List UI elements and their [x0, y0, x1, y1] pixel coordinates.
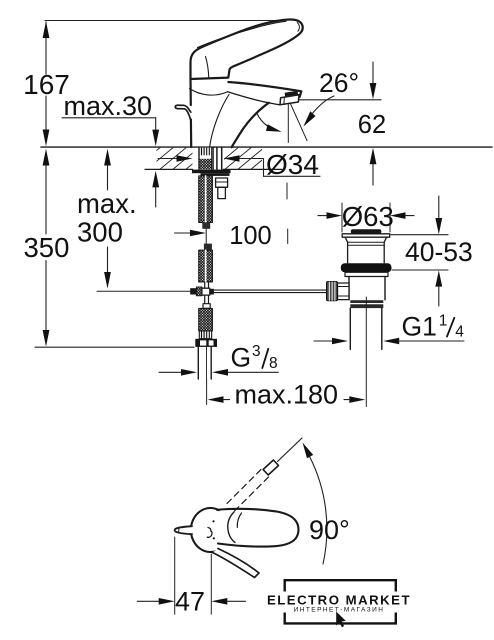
dimension G3/8 arrows	[159, 369, 278, 376]
hose nut 2	[204, 244, 212, 251]
deck hatching right of shank	[212, 148, 277, 170]
svg-text:3: 3	[252, 343, 261, 360]
horizontal pop-up rod to drain	[214, 289, 327, 291]
top view: cap marks	[212, 520, 214, 522]
dimension max.30 leader and arrows	[62, 118, 159, 207]
svg-text:47: 47	[175, 587, 205, 617]
svg-text:1: 1	[439, 313, 448, 330]
dimension 350 vertical line with arrows	[43, 149, 50, 347]
neck collar curve	[190, 89, 228, 96]
350 bottom reference line	[35, 346, 194, 348]
lever inner top contour	[198, 21, 287, 47]
label Ø34 box	[263, 159, 265, 177]
top view: cap second contour	[237, 513, 241, 528]
body interior S curve	[210, 95, 229, 147]
svg-text:G: G	[231, 342, 252, 372]
faucet head and lever outline	[191, 20, 303, 79]
spout arm top edge	[228, 82, 301, 97]
svg-text:100: 100	[229, 222, 272, 250]
top view: raised lever dashed lines	[227, 468, 263, 504]
body right edge	[232, 103, 269, 147]
rod coupling knurled block	[196, 287, 202, 296]
drain body	[349, 277, 385, 300]
body left edge	[189, 79, 192, 105]
logo cursor icon	[336, 612, 346, 628]
arm underside	[228, 92, 280, 105]
svg-text:G1: G1	[402, 312, 437, 342]
drain side port cylinder	[338, 283, 350, 300]
top view: capsule near-edge arc	[228, 512, 235, 543]
svg-text:300: 300	[77, 216, 123, 247]
svg-text:Ø34: Ø34	[266, 149, 319, 180]
dimension Ø34 arrows at deck	[158, 155, 263, 162]
deck hatching left of shank	[134, 148, 212, 170]
top reference line (lever height)	[45, 20, 297, 22]
collar	[203, 304, 210, 309]
top view: spout nub	[175, 526, 192, 534]
drain center line	[365, 297, 367, 407]
dimension 100 arrow	[175, 230, 207, 237]
top view: lever blade	[213, 549, 260, 578]
top view: raised lever tip box	[263, 460, 278, 475]
dimension max.300 vertical line with arrows	[104, 149, 111, 289]
drain flange plate	[342, 234, 390, 237]
top view: raised lever axis line	[278, 438, 303, 462]
dimension 47 extension lines	[174, 537, 176, 614]
svg-text:350: 350	[24, 232, 70, 263]
svg-text:ИНТЕРНЕТ-МАГАЗИН: ИНТЕРНЕТ-МАГАЗИН	[294, 607, 385, 614]
svg-text:90°: 90°	[309, 515, 350, 545]
rod cross white block	[202, 288, 210, 295]
drain plug cap	[351, 229, 382, 234]
G3/8 hex nut	[195, 339, 217, 347]
svg-text:Ø63: Ø63	[342, 201, 394, 232]
dimension G1 1/4 arrows	[314, 338, 464, 345]
top view: lever capsule	[217, 509, 298, 547]
dimension 62: top reference line from spout	[299, 99, 381, 101]
aerator dark band	[285, 91, 299, 99]
drain neck	[345, 237, 386, 263]
dimension 167 vertical line with arrows	[43, 21, 50, 146]
drain knurled knob	[327, 282, 338, 301]
svg-text:62: 62	[358, 111, 386, 139]
svg-text:max.: max.	[77, 188, 137, 219]
svg-text:4: 4	[455, 324, 464, 341]
dimension 47 arrows	[137, 598, 245, 605]
head face arc	[206, 57, 209, 79]
drain bottom ring	[350, 300, 383, 308]
drain tailpipe	[349, 308, 351, 349]
svg-text:max.30: max.30	[64, 91, 153, 121]
mounting flange under deck	[192, 170, 231, 174]
lower braided hose tail	[199, 308, 213, 331]
90 degree arc with arrowhead	[310, 456, 327, 564]
pop-up rod tube through deck	[216, 148, 218, 170]
stem below clamp	[204, 296, 206, 304]
svg-text:40-53: 40-53	[405, 237, 473, 267]
stem between hose and clamp	[204, 282, 206, 288]
26deg arc with arrowheads	[257, 113, 269, 127]
connection tube below nut	[197, 347, 199, 379]
dimension 62 arrows	[370, 62, 377, 185]
deck bottom line	[145, 168, 193, 170]
pop-up knob	[175, 105, 191, 119]
drain rubber gasket	[341, 263, 392, 272]
pop-up rod left reference line	[97, 290, 190, 292]
dimension 40-53 reference lines	[391, 234, 448, 236]
dimension 40-53 arrows	[435, 196, 442, 306]
svg-text:8: 8	[269, 355, 278, 372]
aerator outline box	[280, 95, 299, 105]
rod right dark block	[210, 289, 214, 295]
hose end nut	[202, 222, 210, 228]
dimension Ø63 arrows	[318, 212, 414, 219]
drain: dimension Ø63 extension lines	[341, 203, 343, 232]
supply hose lower braided section	[199, 250, 213, 282]
svg-text:26°: 26°	[319, 68, 359, 98]
top view: body circle	[191, 508, 219, 552]
hose break center line	[205, 229, 207, 244]
threaded shank through deck	[199, 148, 211, 156]
deck / counter top line	[41, 146, 492, 148]
26deg vertical reference line from aerator	[287, 103, 289, 143]
supply hose upper braided section	[199, 176, 213, 223]
26deg slanted line	[290, 102, 308, 141]
drain lock ring	[345, 272, 388, 276]
pop-up rod fitting	[216, 178, 228, 187]
lever loop inner contour	[297, 23, 299, 32]
rod coupling dark block	[190, 288, 196, 294]
svg-text:max.180: max.180	[235, 380, 339, 410]
svg-text:ELECTRO MARKET: ELECTRO MARKET	[267, 592, 411, 607]
dimension max.180	[208, 396, 366, 403]
logo frame	[285, 580, 396, 623]
